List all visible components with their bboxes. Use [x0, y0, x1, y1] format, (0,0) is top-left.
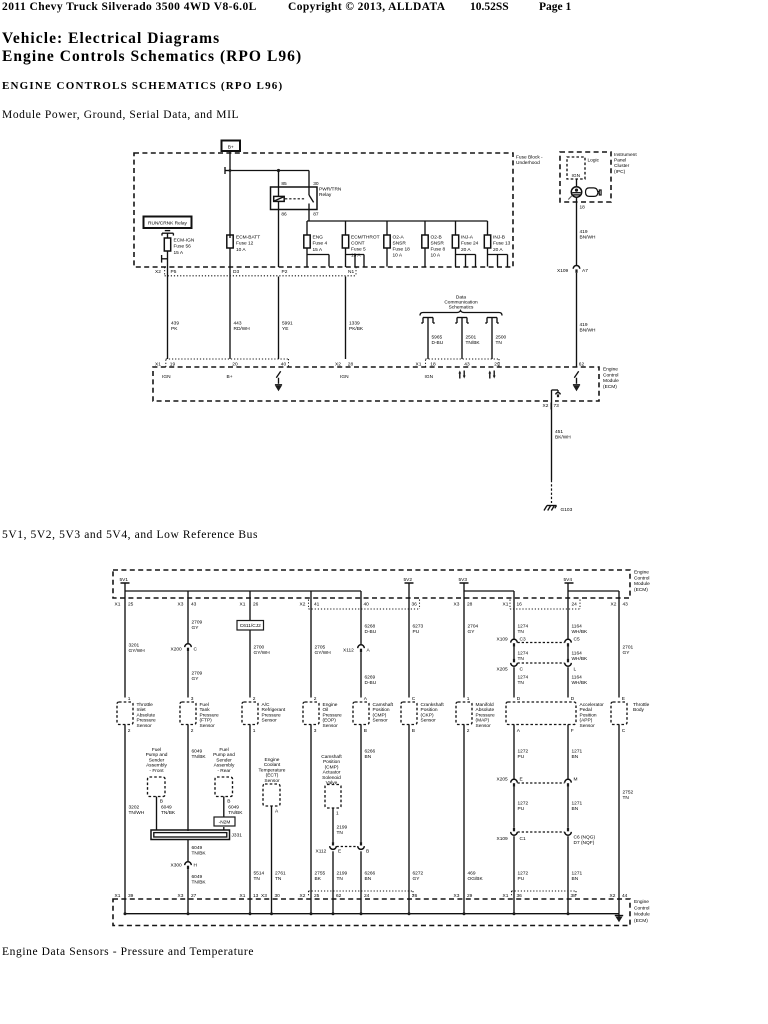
svg-text:ENG: ENG	[313, 235, 324, 241]
svg-text:Sensor: Sensor	[476, 723, 492, 729]
pin 40	[364, 602, 370, 608]
sensor crankshaft position CKP	[401, 696, 444, 734]
svg-text:Throttle: Throttle	[137, 702, 154, 708]
fuse INJ-A	[452, 235, 458, 248]
svg-text:- Rear: - Rear	[217, 768, 231, 774]
svg-text:X3: X3	[261, 893, 267, 899]
svg-text:38: 38	[571, 893, 577, 899]
svg-text:X205: X205	[497, 667, 509, 673]
svg-text:(ECM): (ECM)	[634, 587, 648, 593]
svg-text:Pump and: Pump and	[146, 752, 168, 758]
pin A ECT	[275, 809, 279, 815]
svg-text:29: 29	[494, 361, 500, 367]
pin 62	[336, 893, 342, 899]
wire 6266 BN upper	[360, 725, 362, 843]
wire 419 BN/WH upper	[576, 202, 578, 265]
svg-text:X2: X2	[300, 893, 306, 899]
svg-text:Absolute: Absolute	[476, 707, 495, 713]
label ECM top	[634, 570, 650, 593]
fuse bus from relay	[307, 220, 488, 222]
label ECM/THROT fuse	[351, 235, 380, 259]
svg-text:26: 26	[412, 893, 418, 899]
wire 1271 BN seg2	[567, 787, 569, 828]
svg-text:20 A: 20 A	[493, 247, 503, 253]
dotted group X1 top	[510, 600, 580, 610]
svg-text:Module: Module	[603, 378, 619, 384]
svg-text:X3: X3	[178, 893, 184, 899]
sensor throttle inlet absolute pressure	[117, 696, 156, 734]
svg-text:A: A	[364, 696, 368, 702]
svg-text:X3: X3	[454, 602, 460, 608]
svg-text:E: E	[622, 696, 625, 702]
label INJ-A fuse	[461, 235, 479, 253]
wire 451 dashed segment	[551, 480, 553, 503]
connector X205 L	[565, 659, 577, 673]
svg-text:Fuse 18: Fuse 18	[393, 247, 411, 253]
label 2709 GY lower	[192, 671, 203, 682]
svg-text:41: 41	[314, 602, 320, 608]
svg-text:Module: Module	[634, 581, 650, 587]
svg-text:2: 2	[253, 696, 256, 702]
svg-text:Sensor: Sensor	[323, 723, 339, 729]
wire 6272 GY	[408, 725, 410, 900]
svg-text:Tank: Tank	[200, 707, 211, 713]
svg-text:A: A	[367, 648, 371, 654]
svg-text:RUN/CRNK Relay: RUN/CRNK Relay	[148, 220, 188, 226]
svg-text:(MAP): (MAP)	[476, 718, 490, 724]
link X205 E-M	[518, 782, 565, 784]
svg-text:- Front: - Front	[149, 768, 164, 774]
label 2500 TN	[496, 335, 507, 346]
svg-text:TN/BK: TN/BK	[228, 810, 243, 816]
svg-text:Assembly: Assembly	[146, 763, 167, 769]
svg-text:GY: GY	[623, 650, 631, 656]
label 1274 TN seg1	[518, 624, 529, 635]
label 1164 WH/BK seg1	[572, 624, 589, 635]
svg-text:Logic: Logic	[588, 158, 600, 164]
dotted group X2 bottom	[309, 891, 414, 897]
svg-text:(APP): (APP)	[580, 718, 593, 724]
svg-text:2: 2	[467, 728, 470, 734]
svg-text:(CKP): (CKP)	[421, 712, 434, 718]
svg-text:Crankshaft: Crankshaft	[421, 702, 445, 708]
svg-text:Sensor: Sensor	[137, 723, 153, 729]
pin B rear pump	[227, 799, 230, 805]
svg-text:Pump and: Pump and	[213, 752, 235, 758]
svg-text:Communication: Communication	[444, 300, 478, 306]
svg-text:YE: YE	[282, 326, 288, 332]
fuel pump and sender assembly rear	[213, 747, 235, 797]
svg-text:Solenoid: Solenoid	[322, 775, 341, 781]
svg-text:TN/BK: TN/BK	[192, 850, 207, 856]
svg-text:(IPC): (IPC)	[614, 169, 626, 175]
label 2700 GY/WH	[254, 645, 271, 656]
svg-text:Underhood: Underhood	[516, 160, 540, 166]
svg-text:IGN: IGN	[572, 173, 581, 179]
svg-text:1: 1	[128, 696, 131, 702]
svg-text:PWR/TRN: PWR/TRN	[319, 187, 342, 193]
svg-text:439: 439	[171, 321, 179, 327]
label IGN	[572, 173, 581, 179]
svg-text:18: 18	[430, 361, 436, 367]
svg-text:Sensor: Sensor	[373, 718, 389, 724]
svg-text:6272: 6272	[413, 871, 424, 877]
wire 439 PK	[167, 267, 169, 359]
IPC logic box	[567, 157, 585, 179]
pin 43	[464, 361, 470, 367]
svg-text:D7 (NQF): D7 (NQF)	[574, 840, 595, 846]
svg-text:(ECT): (ECT)	[266, 773, 279, 779]
wire 1272 PU seg3	[513, 836, 515, 899]
svg-text:Sensor: Sensor	[200, 723, 216, 729]
label 1272 PU seg3	[518, 871, 529, 882]
connector X300 H	[171, 862, 198, 869]
svg-text:36: 36	[517, 893, 523, 899]
svg-text:Instrument: Instrument	[614, 152, 637, 158]
svg-text:(ECM): (ECM)	[634, 918, 648, 924]
svg-text:O2-B: O2-B	[431, 235, 442, 241]
relay pin 85 label	[281, 181, 287, 187]
label Logic	[588, 158, 600, 164]
svg-text:WH/BK: WH/BK	[572, 629, 589, 635]
relay PWR/TRN link	[285, 198, 305, 200]
pin 62	[579, 361, 585, 367]
svg-text:TN/BK: TN/BK	[192, 754, 207, 760]
svg-text:X1: X1	[503, 602, 509, 608]
pin X3 27	[178, 893, 197, 899]
svg-text:2500: 2500	[496, 335, 507, 341]
svg-text:Pedal: Pedal	[580, 707, 592, 713]
svg-text:10 A: 10 A	[431, 253, 441, 259]
label 6266 BN lower	[365, 871, 376, 882]
svg-text:6269: 6269	[365, 675, 376, 681]
wire 2700 GY/WH	[249, 598, 251, 698]
node IGN pin18	[425, 374, 434, 380]
svg-text:Control: Control	[634, 905, 649, 911]
label 6268 D-BU	[365, 624, 377, 635]
svg-text:C3: C3	[520, 637, 526, 643]
label 1271 BN seg3	[572, 871, 583, 882]
svg-text:Sensor: Sensor	[580, 723, 596, 729]
svg-text:Manifold: Manifold	[476, 702, 494, 708]
pin 40	[281, 361, 287, 367]
svg-text:-N2M: -N2M	[219, 819, 231, 825]
svg-text:3: 3	[314, 728, 317, 734]
svg-text:2752: 2752	[623, 790, 634, 796]
svg-text:39: 39	[128, 893, 134, 899]
svg-text:36: 36	[412, 602, 418, 608]
svg-text:(ECM): (ECM)	[603, 384, 617, 390]
svg-text:(CMP): (CMP)	[373, 712, 387, 718]
relay pin 86 label	[281, 211, 287, 217]
svg-text:C: C	[412, 696, 416, 702]
dotted group X1 bottom	[512, 891, 577, 897]
connector X205 C	[497, 659, 524, 673]
svg-text:C1: C1	[520, 836, 526, 842]
svg-text:2: 2	[191, 728, 194, 734]
label 6049 TN/BK col2 upper	[192, 749, 207, 760]
svg-text:Cluster: Cluster	[614, 163, 630, 169]
svg-text:B: B	[160, 799, 163, 805]
svg-text:Fuse 12: Fuse 12	[236, 241, 254, 247]
svg-text:2501: 2501	[466, 335, 477, 341]
svg-text:X2: X2	[611, 602, 617, 608]
wire 2704 GY	[463, 598, 465, 698]
connector X200 C	[171, 644, 198, 653]
svg-text:B: B	[412, 728, 415, 734]
ECM internal ground	[615, 914, 623, 923]
svg-text:27: 27	[191, 893, 197, 899]
svg-text:1164: 1164	[572, 651, 583, 657]
svg-text:X112: X112	[343, 648, 354, 654]
ECM/THROT fuse output stubs	[346, 248, 365, 267]
5V4 bus	[568, 590, 619, 592]
svg-text:Engine: Engine	[634, 899, 649, 905]
svg-text:BN: BN	[365, 876, 372, 882]
svg-text:24: 24	[364, 893, 370, 899]
sensor engine oil pressure EOP	[303, 696, 342, 734]
label 451 BK/WH	[555, 429, 571, 440]
svg-text:B+: B+	[227, 374, 233, 380]
wire 1272 PU seg2	[513, 787, 515, 828]
sensor AC refrigerant pressure	[242, 696, 286, 734]
wire 1339 PK/BK	[345, 277, 347, 360]
svg-text:2705: 2705	[315, 645, 326, 651]
label ECM-BATT fuse	[236, 235, 260, 253]
svg-text:RD/WH: RD/WH	[234, 326, 251, 332]
svg-text:SNSR: SNSR	[431, 241, 445, 247]
ground label -N2M	[214, 817, 235, 826]
pin 1 CMP solenoid	[336, 811, 339, 817]
svg-text:Engine: Engine	[603, 367, 618, 373]
fuse ECM/THROT CONT	[342, 235, 348, 248]
label 2701 GY	[623, 645, 634, 656]
wire 6266 BN lower	[360, 851, 362, 899]
svg-text:2704: 2704	[468, 624, 479, 630]
label 2761 TN	[275, 871, 286, 882]
svg-text:X109: X109	[557, 268, 569, 274]
label 6049 TN/BK col2 mid	[192, 845, 207, 856]
fuse ECM-IGN	[164, 238, 170, 251]
connector X205 E	[497, 776, 523, 786]
svg-text:Relay: Relay	[319, 192, 332, 198]
svg-text:BN/WH: BN/WH	[580, 234, 597, 240]
svg-text:Throttle: Throttle	[633, 702, 650, 708]
svg-text:X109: X109	[497, 637, 509, 643]
ground G103	[544, 506, 573, 514]
svg-text:20: 20	[232, 361, 238, 367]
label 2709 GY upper	[192, 620, 203, 631]
svg-text:3202: 3202	[129, 805, 140, 811]
svg-text:Fuse Block -: Fuse Block -	[516, 155, 543, 161]
sensor accelerator pedal position APP	[506, 696, 604, 734]
svg-text:43: 43	[623, 602, 629, 608]
svg-text:Fuel: Fuel	[219, 747, 228, 753]
connector dotted run	[165, 267, 356, 276]
terminal 2500	[485, 318, 499, 324]
pin X2 25	[300, 893, 320, 899]
svg-text:TN: TN	[518, 629, 525, 635]
svg-text:5V2: 5V2	[404, 577, 413, 583]
svg-text:44: 44	[622, 893, 628, 899]
O2-B fuse output wire	[424, 248, 426, 267]
relay PWR/TRN switch blade	[309, 195, 314, 202]
svg-text:30: 30	[313, 181, 319, 187]
wire relay switch to fuse bus	[308, 204, 310, 222]
terminal 2501	[455, 318, 469, 324]
sensor camshaft position CMP	[353, 696, 394, 734]
svg-text:1339: 1339	[349, 321, 360, 327]
svg-text:TN: TN	[337, 876, 344, 882]
pin 18 label	[580, 205, 586, 211]
svg-text:87: 87	[313, 211, 319, 217]
svg-text:GY: GY	[468, 629, 476, 635]
svg-text:BN: BN	[572, 876, 579, 882]
label PWR/TRN Relay	[319, 187, 342, 199]
label 5991 YE	[282, 321, 293, 332]
svg-text:Accelerator: Accelerator	[580, 702, 605, 708]
link X109 C3-C5	[518, 642, 565, 644]
data communication brace	[420, 311, 502, 316]
svg-text:X1: X1	[240, 602, 246, 608]
label 3201 GY/WH	[129, 643, 146, 654]
svg-text:Sensor: Sensor	[264, 778, 280, 784]
svg-text:2755: 2755	[315, 871, 326, 877]
pin X1 19	[155, 361, 175, 367]
svg-text:E: E	[338, 849, 341, 855]
svg-text:43: 43	[191, 602, 197, 608]
svg-text:Position: Position	[373, 707, 390, 713]
dotted pin group X1	[166, 359, 289, 367]
ECM box top	[113, 570, 630, 598]
dotted group X2 top	[309, 600, 420, 610]
pin X3 29	[454, 893, 473, 899]
svg-text:PU: PU	[518, 754, 525, 760]
svg-text:25: 25	[314, 893, 320, 899]
fuse O2-B SNSR	[422, 235, 428, 248]
svg-text:2199: 2199	[337, 871, 348, 877]
svg-text:1274: 1274	[518, 624, 529, 630]
pin 26	[412, 893, 418, 899]
connector X112 A	[343, 645, 371, 654]
svg-text:10 A: 10 A	[236, 247, 246, 253]
RUN/CRNK Relay label box	[144, 217, 192, 229]
label Engine Control Module ECM	[603, 367, 619, 390]
svg-text:GY: GY	[413, 876, 421, 882]
label 419 BN/WH upper	[580, 229, 597, 240]
svg-text:3201: 3201	[129, 643, 140, 649]
wire 2199 TN upper	[332, 808, 334, 842]
link X109 C1-C6	[518, 831, 565, 833]
svg-text:WH/BK: WH/BK	[572, 656, 589, 662]
svg-text:Position: Position	[580, 712, 597, 718]
wire 1164 WH/BK seg1	[567, 598, 569, 639]
pin N1	[348, 269, 354, 275]
pin 20	[232, 361, 238, 367]
svg-text:X3: X3	[454, 893, 460, 899]
svg-text:P5: P5	[171, 269, 177, 275]
svg-text:WH/BK: WH/BK	[572, 680, 589, 686]
svg-text:B: B	[364, 728, 367, 734]
MIL indicator lamp	[568, 187, 581, 200]
label 6273 PU	[413, 624, 424, 635]
svg-text:6268: 6268	[365, 624, 376, 630]
svg-text:5V3: 5V3	[459, 577, 468, 583]
svg-text:BN: BN	[365, 754, 372, 760]
svg-text:A7: A7	[582, 268, 588, 274]
svg-text:40: 40	[364, 602, 370, 608]
svg-text:Fuse 24: Fuse 24	[461, 241, 479, 247]
label 5514 TN	[254, 871, 265, 882]
pin X2 43	[611, 602, 629, 608]
relay pin 87 label	[313, 211, 319, 217]
svg-text:2700: 2700	[254, 645, 265, 651]
svg-text:X1: X1	[503, 893, 509, 899]
svg-text:1272: 1272	[518, 749, 529, 755]
wire 6273 PU	[408, 598, 410, 698]
wire 6268 D-BU	[360, 598, 362, 645]
svg-text:PU: PU	[518, 806, 525, 812]
svg-text:419: 419	[580, 322, 588, 328]
label 1271 BN seg1	[572, 749, 583, 760]
svg-text:15 A: 15 A	[313, 247, 323, 253]
svg-text:C: C	[194, 647, 198, 653]
svg-text:X2: X2	[300, 602, 306, 608]
svg-text:X109: X109	[497, 836, 509, 842]
wire drops to fuses	[307, 221, 488, 235]
svg-text:Fuel: Fuel	[200, 702, 209, 708]
label ECM-IGN fuse	[174, 238, 195, 256]
svg-text:Panel: Panel	[614, 158, 626, 164]
svg-text:(EOP): (EOP)	[323, 718, 337, 724]
svg-text:Module: Module	[634, 912, 650, 918]
svg-text:3: 3	[191, 696, 194, 702]
svg-text:A: A	[275, 809, 279, 815]
svg-text:5514: 5514	[254, 871, 265, 877]
wire 2761 TN	[271, 806, 273, 899]
label 1339 PK/BK	[349, 321, 364, 332]
connector X112 B	[358, 842, 370, 854]
wire front pump to J331	[156, 797, 158, 831]
svg-text:Pressure: Pressure	[137, 718, 157, 724]
wire 1274 TN seg1	[513, 598, 515, 639]
5V2 supply	[404, 577, 414, 598]
svg-text:B+: B+	[228, 144, 234, 150]
wire 2199 TN lower	[332, 851, 334, 899]
svg-text:26: 26	[253, 602, 259, 608]
svg-text:D-BU: D-BU	[432, 340, 444, 346]
relay PWR/TRN coil	[274, 196, 285, 201]
switch tick below ECM-IGN fuse	[162, 255, 168, 263]
ECM box	[153, 367, 599, 401]
svg-text:13: 13	[253, 893, 259, 899]
5V4 supply	[564, 577, 574, 591]
svg-text:PU: PU	[518, 876, 525, 882]
pin 24	[364, 893, 370, 899]
connector X205 M	[565, 776, 578, 786]
wire relay switch feed pin 30	[308, 171, 310, 196]
svg-text:X2: X2	[335, 361, 341, 367]
svg-text:IGN: IGN	[340, 374, 349, 380]
label 2199 TN upper	[337, 825, 348, 836]
svg-text:6273: 6273	[413, 624, 424, 630]
label 1272 PU seg2	[518, 801, 529, 812]
svg-text:Engine: Engine	[634, 570, 649, 576]
pin X1 36	[503, 893, 523, 899]
throttle body box	[611, 696, 650, 734]
svg-text:Pressure: Pressure	[262, 712, 282, 718]
label 1274 TN seg3	[518, 675, 529, 686]
